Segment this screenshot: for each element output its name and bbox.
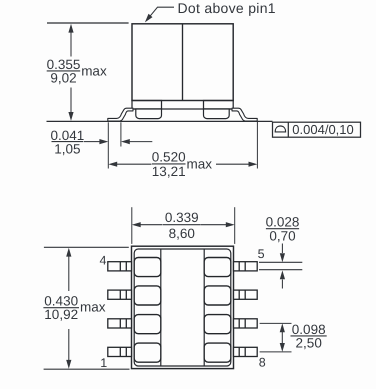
lead pin3 (left row2): [108, 290, 132, 299]
svg-text:max: max: [81, 64, 107, 79]
svg-text:0.520: 0.520: [152, 149, 186, 164]
extension line: lead foot inner (left): [120, 122, 122, 146]
pin8 centerline extension: [260, 351, 292, 353]
shoulder block left: [132, 101, 162, 110]
lead pin8 (right row4): [234, 347, 258, 356]
dim 0.098 arrows: [280, 323, 285, 352]
pad pin7 (right row3): [204, 315, 231, 334]
pad pin2 (left row3): [134, 315, 161, 334]
svg-text:2,50: 2,50: [296, 335, 322, 350]
svg-text:1: 1: [100, 356, 107, 370]
label 0.520/13,21 max: [152, 149, 212, 178]
lead pin6 (right row2): [234, 290, 258, 299]
svg-text:max: max: [187, 156, 213, 171]
label 0.430/10,92 max: [44, 294, 105, 322]
pad pin6 (right row2): [204, 286, 231, 305]
pin7 centerline extension: [260, 322, 292, 324]
flatness spec frame: [273, 122, 361, 137]
extension line body bottom (bottom view): [44, 368, 130, 370]
svg-text:8: 8: [259, 356, 266, 370]
label 0.355/9,02 max: [47, 57, 107, 86]
pad pin4 (left row1): [134, 258, 161, 277]
dim 0.520 arrows: [108, 162, 257, 167]
pad pin8 (right row4): [204, 343, 231, 362]
svg-text:5: 5: [258, 247, 265, 261]
label 0.041/1,05: [51, 128, 85, 157]
seating plane line: [47, 120, 273, 122]
extension line: lead foot outer (right): [256, 122, 258, 169]
lead pin5 (right row1): [234, 262, 258, 271]
svg-text:8,60: 8,60: [169, 226, 195, 241]
pin5 edge extension lines: [259, 261, 302, 263]
standoff block right: [204, 109, 230, 119]
body mold centerline: [182, 24, 184, 101]
standoff block left: [136, 109, 162, 119]
center channel line right: [203, 249, 205, 366]
svg-text:Dot above pin1: Dot above pin1: [178, 0, 276, 16]
lead pin4 (left row1): [108, 262, 132, 271]
dim 0.355 vertical line with arrows: [68, 24, 73, 121]
gull-wing lead right (side view): [232, 108, 257, 121]
inner mold rim: [134, 249, 231, 366]
extension line top (package top level): [47, 22, 129, 24]
svg-text:max: max: [80, 300, 106, 315]
svg-text:10,92: 10,92: [44, 307, 78, 322]
svg-text:9,02: 9,02: [50, 71, 76, 86]
pad pin3 (left row2): [134, 286, 161, 305]
svg-text:1,05: 1,05: [54, 141, 80, 156]
label 0.098/2,50: [292, 322, 326, 350]
svg-text:0.004/0,10: 0.004/0,10: [292, 122, 353, 137]
center channel line left: [160, 249, 162, 366]
dim 0.339 extension lines: [131, 207, 133, 244]
label 0.028/0,70: [266, 215, 300, 244]
dim 0.028 arrows: [280, 244, 285, 289]
shoulder block right: [204, 101, 234, 110]
lead pin2 (left row3): [108, 319, 132, 328]
package body outline (bottom view): [132, 246, 234, 368]
leader: Dot above pin1: [147, 7, 175, 20]
body bottom step line: [134, 108, 231, 110]
package body U1 (side view): [132, 24, 233, 101]
flatness symbol: [275, 126, 285, 132]
svg-text:0.339: 0.339: [165, 210, 199, 225]
svg-text:0,70: 0,70: [269, 228, 295, 243]
dim 0.041 arrows: [84, 139, 152, 144]
svg-text:13,21: 13,21: [152, 164, 186, 179]
pad pin5 (right row1): [204, 258, 231, 277]
pad pin1 (left row4): [134, 343, 161, 362]
dim 0.430 vertical line with arrows: [66, 248, 71, 369]
extension line: lead foot outer (left): [107, 122, 109, 168]
extension line body top (bottom view): [44, 246, 129, 248]
svg-text:4: 4: [100, 253, 107, 267]
dim 0.339 arrows: [132, 222, 235, 227]
label 0.339/8,60: [165, 210, 199, 241]
svg-text:0.028: 0.028: [266, 215, 300, 230]
lead pin1 (left row4): [108, 347, 132, 356]
gull-wing lead left (side view): [108, 108, 133, 121]
lead pin7 (right row3): [234, 319, 258, 328]
